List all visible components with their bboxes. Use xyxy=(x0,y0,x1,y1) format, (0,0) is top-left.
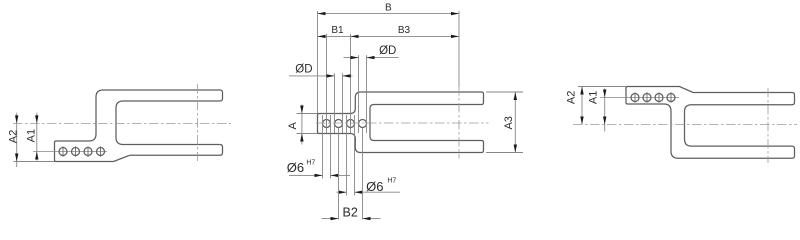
left variant main centerline xyxy=(13,122,231,124)
dimension O6 H7 (hole 3) xyxy=(337,177,401,194)
dimension A3 xyxy=(503,92,517,153)
left variant prong-hole centerline xyxy=(197,84,199,161)
right variant hole 2 xyxy=(643,92,651,102)
svg-text:H7: H7 xyxy=(387,177,396,184)
middle fork outline xyxy=(318,92,484,153)
middle main centerline xyxy=(316,122,489,124)
dimension A xyxy=(287,105,304,145)
svg-text:A1: A1 xyxy=(587,91,599,104)
right variant hole 4 xyxy=(667,92,675,102)
middle hole 3 xyxy=(347,118,355,129)
left variant hole 3 xyxy=(84,146,92,156)
svg-text:ØD: ØD xyxy=(379,45,396,57)
dimension B2 extension lines xyxy=(339,128,363,220)
svg-text:A2: A2 xyxy=(7,130,19,143)
dimension O6 H7 (hole 3) extension lines xyxy=(347,115,355,195)
dimension OD (hole 4) extension lines xyxy=(359,55,367,133)
svg-text:A: A xyxy=(287,121,299,129)
svg-text:Ø6: Ø6 xyxy=(366,179,383,194)
svg-text:B2: B2 xyxy=(343,205,358,219)
extension line strip top (right) xyxy=(578,86,626,88)
dimension A1 (left figure) xyxy=(25,113,38,161)
svg-text:ØD: ØD xyxy=(295,63,312,75)
left variant fork outline xyxy=(55,90,223,162)
dimension OD (hole 2) extension lines xyxy=(335,73,343,133)
svg-text:A3: A3 xyxy=(503,116,515,129)
dimension OD (hole 2) xyxy=(289,63,353,77)
middle hole 1 xyxy=(323,118,331,129)
svg-text:B3: B3 xyxy=(398,25,411,36)
left variant hole 2 xyxy=(72,146,80,156)
left variant hole axis line xyxy=(33,151,107,153)
right variant hole axis line xyxy=(600,97,679,99)
svg-text:H7: H7 xyxy=(306,159,315,166)
dimension B3 xyxy=(351,25,460,38)
middle prong-hole centerline xyxy=(458,86,460,159)
dimension O6 H7 (hole 1) extension lines xyxy=(323,115,331,178)
dimension A extension lines xyxy=(297,114,318,134)
svg-text:A1: A1 xyxy=(25,129,37,142)
svg-text:Ø6: Ø6 xyxy=(287,160,304,175)
dimension B extension lines xyxy=(318,11,460,114)
svg-text:A2: A2 xyxy=(566,91,578,104)
hole1 centre extension line xyxy=(326,34,328,134)
dimension A1 (right figure) xyxy=(587,89,606,132)
dimension A2 (right figure) xyxy=(566,87,584,125)
right variant fork outline xyxy=(626,87,795,159)
middle hole 4 xyxy=(359,120,367,128)
left variant hole 4 xyxy=(97,146,105,156)
left variant hole 1 xyxy=(59,146,67,156)
hole3 centre extension line (B1/B3) xyxy=(350,34,352,134)
dimension A2 (left figure) xyxy=(7,113,19,167)
right variant main centerline xyxy=(573,124,797,126)
dimension O6 H7 (hole 1) xyxy=(287,159,350,177)
extension line strip bottom (left) xyxy=(14,161,55,163)
right variant prong-hole centerline xyxy=(767,88,769,163)
right variant hole 3 xyxy=(655,92,663,102)
dimension A3 extension lines xyxy=(486,92,523,153)
dimension OD (hole 4) xyxy=(344,45,399,59)
dimension B xyxy=(318,3,460,16)
dimension B2 xyxy=(322,205,381,220)
dimension B1 xyxy=(318,25,351,38)
svg-text:B: B xyxy=(385,3,392,14)
svg-text:B1: B1 xyxy=(331,25,344,36)
middle hole 2 xyxy=(335,120,343,128)
right variant hole 1 xyxy=(631,92,639,102)
